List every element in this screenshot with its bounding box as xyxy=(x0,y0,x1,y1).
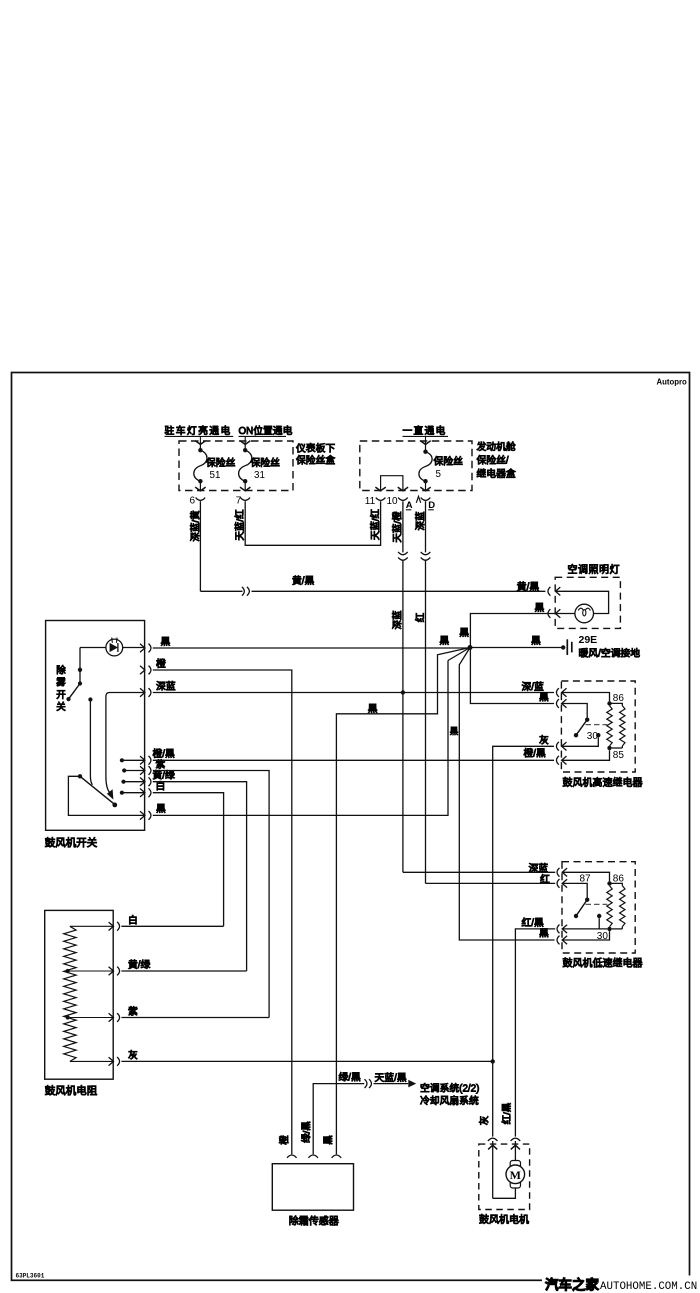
blower low-speed relay box xyxy=(562,862,635,953)
svg-text:29E: 29E xyxy=(579,634,598,646)
svg-text:白: 白 xyxy=(128,914,138,927)
svg-text:7: 7 xyxy=(236,495,242,506)
svg-text:一直通电: 一直通电 xyxy=(403,424,447,437)
svg-text:橙/黑: 橙/黑 xyxy=(153,747,176,760)
wire 深蓝 vertical to low relay (drawn above) corner xyxy=(403,871,555,873)
svg-text:86: 86 xyxy=(613,693,625,704)
resistor pin connector 黄/绿 xyxy=(109,967,114,975)
svg-text:黑: 黑 xyxy=(324,1135,335,1145)
svg-text:红/黑: 红/黑 xyxy=(501,1102,513,1124)
svg-text:绿/黑: 绿/黑 xyxy=(300,1121,312,1143)
relay-high entry 黑 xyxy=(556,699,558,708)
fuse F51 xyxy=(195,441,205,445)
wire 红/黑 low relay to motor xyxy=(515,929,555,1137)
relay-low coil zigzag 2 xyxy=(620,886,625,927)
switch pin connector 橙/黑 xyxy=(140,756,145,764)
defogger switch contact xyxy=(78,681,82,685)
resistor tap dot 黄/绿 xyxy=(66,969,70,973)
wire 橙 switch to sensor xyxy=(153,670,292,1154)
blower motor 鼓风机电机 box xyxy=(479,1144,530,1209)
inline connector on 黄/黑 xyxy=(242,587,244,596)
wire 灰 junction down to motor xyxy=(492,1061,494,1136)
svg-text:开: 开 xyxy=(56,690,66,701)
relay-high pin 85 xyxy=(607,746,611,750)
motor connector 灰 xyxy=(488,1138,498,1141)
svg-text:黑: 黑 xyxy=(539,691,549,703)
svg-text:红/黑: 红/黑 xyxy=(522,916,545,929)
svg-text:仪表板下: 仪表板下 xyxy=(296,441,335,454)
indicator diode in switch xyxy=(106,639,123,656)
svg-text:保险丝盒: 保险丝盒 xyxy=(296,453,335,466)
svg-text:汽车之家: 汽车之家 xyxy=(545,1277,599,1293)
wire 黄/绿 resistor row xyxy=(121,970,246,972)
svg-text:灰: 灰 xyxy=(479,1116,491,1126)
relay-low internals xyxy=(562,872,609,881)
svg-text:橙: 橙 xyxy=(156,657,166,670)
relay-high contact xyxy=(596,733,600,737)
inline connector pair on wire D xyxy=(421,552,431,555)
svg-text:天蓝/橙: 天蓝/橙 xyxy=(392,511,404,543)
relay-low wire to contact 87 xyxy=(562,883,587,897)
svg-text:51: 51 xyxy=(210,470,221,481)
svg-text:紫: 紫 xyxy=(128,1006,138,1018)
motor internal wiring xyxy=(492,1141,494,1198)
svg-text:黑: 黑 xyxy=(535,602,545,614)
wire A (天蓝/橙 → 深蓝) pin 10 down xyxy=(402,501,404,552)
relay-low entry 红/黑 xyxy=(557,925,559,934)
svg-text:黄/黑: 黄/黑 xyxy=(517,580,540,593)
relay-high blade xyxy=(576,720,587,736)
wire 橙/黑 switch to high relay xyxy=(153,759,554,761)
relay-low entry 黑 xyxy=(557,936,559,945)
wire node to ground xyxy=(470,647,562,649)
wire 红 to low relay xyxy=(426,882,556,884)
svg-text:灰: 灰 xyxy=(128,1049,138,1062)
svg-text:保险丝: 保险丝 xyxy=(251,456,281,469)
svg-text:10: 10 xyxy=(387,496,399,507)
resistor tap dot 紫 xyxy=(66,1015,70,1019)
fuse box (under-dash) dashed enclosure xyxy=(179,441,293,491)
lamp bulb symbol xyxy=(575,604,594,623)
switch pin connector 黑 xyxy=(140,644,145,652)
svg-text:驻车灯亮通电: 驻车灯亮通电 xyxy=(165,424,232,437)
wiper pivot xyxy=(78,774,82,778)
pin-D entry mark xyxy=(416,496,420,502)
switch pin connector 白 xyxy=(140,789,145,797)
switch common to black pin xyxy=(68,776,144,815)
sensor connector 橙 xyxy=(287,1155,297,1158)
svg-text:深蓝: 深蓝 xyxy=(391,610,403,630)
relay-high 灰 wire to 30 xyxy=(562,737,599,746)
wire 紫 resistor row xyxy=(121,1017,269,1019)
relay-high coil zigzag 2 xyxy=(620,706,625,746)
relay-low blade xyxy=(576,900,587,916)
svg-text:鼓风机高速继电器: 鼓风机高速继电器 xyxy=(563,776,643,789)
switch wire to wiper (深蓝) xyxy=(106,693,145,794)
svg-text:鼓风机低速继电器: 鼓风机低速继电器 xyxy=(563,957,643,970)
svg-text:除: 除 xyxy=(56,664,66,676)
junction 深蓝 net xyxy=(401,690,405,694)
svg-text:31: 31 xyxy=(254,470,265,481)
ground symbol 29E xyxy=(561,645,565,649)
svg-text:黄/绿: 黄/绿 xyxy=(128,958,151,971)
svg-text:鼓风机开关: 鼓风机开关 xyxy=(45,836,98,849)
wire D (深蓝 → 红) down xyxy=(425,501,427,552)
node fan wire to switch bottom xyxy=(448,648,470,661)
svg-text:鼓风机电阻: 鼓风机电阻 xyxy=(45,1084,98,1097)
wire 白 switch to resistor xyxy=(153,793,224,927)
svg-text:黑: 黑 xyxy=(439,635,449,647)
speed contacts xyxy=(120,758,124,762)
svg-text:雾: 雾 xyxy=(56,677,66,688)
relay-high entry 灰 xyxy=(556,742,558,751)
svg-text:黑: 黑 xyxy=(531,635,541,647)
svg-text:天蓝/黑: 天蓝/黑 xyxy=(375,1072,407,1084)
wire 深蓝/黄 from pin 6 xyxy=(199,501,201,591)
svg-text:黑: 黑 xyxy=(459,627,469,639)
relay-low pin 86 xyxy=(607,881,611,885)
svg-text:30: 30 xyxy=(587,731,599,742)
relay-high coil zigzag 1 xyxy=(607,706,612,746)
svg-text:5: 5 xyxy=(436,469,442,480)
footer watermark xyxy=(542,1276,700,1293)
inner post wire xyxy=(88,697,92,701)
inline connector 绿/黑 xyxy=(365,1079,367,1088)
relay-low contact 30 xyxy=(597,914,601,918)
wire 灰 high relay down to gray junction xyxy=(493,746,554,1061)
relay-low actuation linkage xyxy=(586,903,608,905)
wire 黑 lamp to node xyxy=(470,614,555,646)
relay-high 橙/黑 wire to 85 xyxy=(562,750,610,760)
wire 黄/黑 horizontal to lamp xyxy=(200,590,242,592)
blower switch 鼓风机开关 box xyxy=(46,621,145,831)
motor symbol xyxy=(510,1161,520,1189)
svg-text:ON位置通电: ON位置通电 xyxy=(239,424,293,437)
svg-text:Autopro: Autopro xyxy=(657,378,688,387)
svg-text:黑: 黑 xyxy=(450,726,459,736)
resistor pin connector 灰 xyxy=(109,1057,114,1065)
svg-text:暖风/空调接地: 暖风/空调接地 xyxy=(579,646,641,659)
wire 灰 resistor row xyxy=(121,1060,492,1062)
lamp internal wiring xyxy=(555,591,608,613)
relay-high actuation linkage xyxy=(586,724,608,726)
svg-text:天蓝/红: 天蓝/红 xyxy=(234,509,246,541)
border frame xyxy=(12,373,690,1281)
svg-text:关: 关 xyxy=(56,701,66,713)
svg-text:橙/黑: 橙/黑 xyxy=(524,747,547,760)
relay-low contact xyxy=(585,898,589,902)
main ground node xyxy=(468,645,473,650)
wire 白 resistor row xyxy=(121,925,223,927)
svg-text:黑: 黑 xyxy=(161,636,171,648)
svg-text:黄/黑: 黄/黑 xyxy=(292,574,315,587)
svg-text:空调系统(2/2): 空调系统(2/2) xyxy=(420,1081,479,1094)
svg-text:深蓝/黄: 深蓝/黄 xyxy=(189,510,201,541)
resistor element zigzag xyxy=(64,926,76,1061)
blower high-speed relay box xyxy=(561,681,635,772)
lamp connector 黄/黑 xyxy=(548,587,550,596)
svg-text:继电器盒: 继电器盒 xyxy=(477,467,516,480)
fuse box (engine compartment) dashed enclosure xyxy=(360,441,472,491)
svg-text:深蓝: 深蓝 xyxy=(156,680,176,692)
svg-text:M: M xyxy=(510,1168,521,1182)
resistor pin connector 紫 xyxy=(109,1013,114,1021)
wire 紫 switch to resistor xyxy=(153,771,269,1018)
svg-text:发动机舱: 发动机舱 xyxy=(477,440,516,453)
svg-text:空调照明灯: 空调照明灯 xyxy=(568,563,621,576)
svg-text:黑: 黑 xyxy=(156,803,166,815)
svg-text:保险丝: 保险丝 xyxy=(434,454,464,467)
relay-high entry 深/蓝 xyxy=(556,688,558,697)
sensor connector 绿/黑 xyxy=(308,1155,318,1158)
svg-text:红: 红 xyxy=(414,612,426,622)
switch pin connector 橙 xyxy=(140,666,145,674)
internal bus link pins 11-10 xyxy=(381,476,403,491)
node fan wire to low relay 黑 xyxy=(459,648,554,941)
svg-text:63PL3601: 63PL3601 xyxy=(16,1273,45,1280)
svg-text:11: 11 xyxy=(365,496,376,507)
resistor tap 白 xyxy=(70,925,113,927)
switch pin connector 黑 xyxy=(140,811,145,819)
relay-high pin 86 xyxy=(607,701,611,705)
svg-text:天蓝/红: 天蓝/红 xyxy=(370,508,382,540)
svg-text:深蓝: 深蓝 xyxy=(415,511,427,531)
relay-high wire to switch contact xyxy=(562,704,588,718)
relay-low 黑 wire xyxy=(562,931,609,940)
switch pin connector 深蓝 xyxy=(140,688,145,696)
defrost sensor 除霜传感器 box xyxy=(272,1164,353,1211)
relay-low pin 85/30 junction xyxy=(607,927,611,931)
svg-text:保险丝/: 保险丝/ xyxy=(477,453,509,466)
inline connector pair on wire A xyxy=(398,552,408,555)
svg-text:灰: 灰 xyxy=(539,734,549,747)
svg-text:冷却风扇系统: 冷却风扇系统 xyxy=(420,1094,479,1107)
relay-high entry 橙/黑 xyxy=(556,756,558,765)
lamp connector 黑 xyxy=(548,609,550,618)
svg-text:AUTOHOME.COM.CN: AUTOHOME.COM.CN xyxy=(600,1281,697,1293)
node fan wire to sensor 黑 xyxy=(336,648,470,1155)
svg-text:保险丝: 保险丝 xyxy=(206,456,236,469)
switch pin connector 黄/绿 xyxy=(140,778,145,786)
wire 黑 switch to node xyxy=(153,647,470,649)
relay-high contact 30 common xyxy=(585,718,589,722)
wire 黄/绿 switch to resistor xyxy=(153,782,247,971)
junction 灰 net xyxy=(491,1059,495,1063)
fuse F5 xyxy=(420,441,430,445)
wire 天蓝/红 pin 7 to pin 11 xyxy=(245,501,380,545)
fuse F31 xyxy=(240,441,250,445)
wiper end contact xyxy=(112,803,117,808)
relay-low entry 深蓝 xyxy=(557,868,559,877)
relay-low 红/黑 wire xyxy=(562,928,607,930)
relay-high internals xyxy=(562,693,610,702)
svg-text:黑: 黑 xyxy=(368,703,378,715)
svg-text:85: 85 xyxy=(613,750,625,761)
relay-low coil zigzag 1 xyxy=(607,886,612,927)
wire 深蓝 switch to high relay xyxy=(153,692,554,694)
relay-low entry 红 xyxy=(557,879,559,888)
svg-text:6: 6 xyxy=(190,495,196,506)
switch internal wiring top xyxy=(123,647,145,649)
sensor connector 黑 xyxy=(332,1155,342,1158)
wire 黑 switch bottom to node fan xyxy=(153,661,448,816)
motor connector 红/黑 xyxy=(511,1138,521,1141)
switch pin connector 紫 xyxy=(140,766,145,774)
wire 绿/黑 branch to A/C system xyxy=(313,1084,364,1155)
junction in switch xyxy=(78,668,82,672)
svg-text:橙: 橙 xyxy=(278,1135,290,1145)
resistor bottom 灰 xyxy=(70,1060,113,1062)
node wire down to high relay 黑 xyxy=(470,648,554,704)
blower resistor 鼓风机电阻 box xyxy=(45,910,114,1079)
svg-text:绿/黑: 绿/黑 xyxy=(339,1071,362,1084)
svg-text:除霜传感器: 除霜传感器 xyxy=(289,1214,339,1227)
svg-text:鼓风机电机: 鼓风机电机 xyxy=(479,1213,529,1226)
resistor pin connector 白 xyxy=(109,922,114,930)
